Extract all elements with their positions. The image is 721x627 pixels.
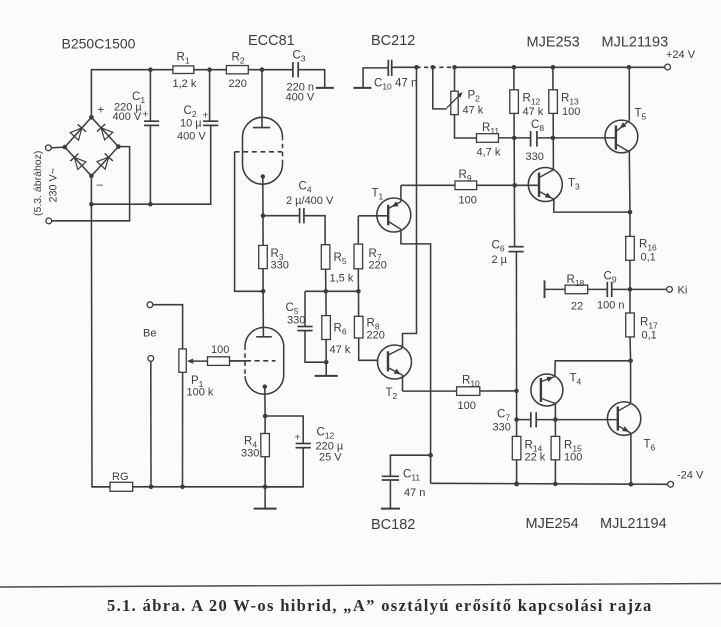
svg-text:400 V: 400 V [286, 92, 315, 104]
svg-text:47 n: 47 n [404, 487, 425, 499]
svg-text:47 k: 47 k [330, 344, 351, 356]
svg-text:4,7 k: 4,7 k [477, 147, 501, 159]
svg-text:22: 22 [571, 301, 583, 313]
svg-text:Be: Be [143, 328, 156, 340]
svg-text:0,1: 0,1 [641, 252, 656, 264]
svg-text:RG: RG [112, 471, 129, 483]
svg-text:MJL21194: MJL21194 [600, 516, 667, 532]
svg-text:(5.3. ábrához): (5.3. ábrához) [32, 151, 44, 216]
svg-text:MJL21193: MJL21193 [602, 35, 669, 51]
svg-text:MJE254: MJE254 [526, 516, 579, 532]
svg-text:ECC81: ECC81 [248, 33, 295, 49]
svg-text:MJE253: MJE253 [527, 35, 580, 51]
svg-text:100 k: 100 k [187, 387, 214, 399]
svg-text:100: 100 [211, 344, 229, 356]
svg-text:+24 V: +24 V [666, 49, 696, 61]
svg-text:330: 330 [287, 315, 305, 327]
svg-text:400 V: 400 V [113, 111, 142, 123]
svg-text:100: 100 [459, 195, 477, 207]
svg-text:1,2 k: 1,2 k [173, 78, 197, 90]
svg-text:330: 330 [241, 448, 259, 460]
svg-text:22 k: 22 k [525, 452, 546, 464]
svg-text:10 µ: 10 µ [180, 118, 202, 130]
svg-text:+: + [98, 105, 105, 117]
svg-text:330: 330 [271, 260, 289, 272]
svg-text:25 V: 25 V [319, 452, 342, 464]
svg-text:100 n: 100 n [597, 300, 625, 312]
svg-text:2 µ: 2 µ [492, 254, 508, 266]
svg-text:B250C1500: B250C1500 [62, 36, 136, 52]
svg-text:BC212: BC212 [371, 33, 415, 49]
svg-text:230 V~: 230 V~ [48, 168, 60, 203]
svg-text:330: 330 [526, 151, 544, 163]
svg-text:100: 100 [564, 452, 582, 464]
svg-text:47 k: 47 k [463, 105, 484, 117]
svg-text:2 µ/400 V: 2 µ/400 V [286, 195, 334, 207]
svg-text:Ki: Ki [678, 285, 688, 297]
svg-text:220: 220 [367, 330, 385, 342]
svg-text:330: 330 [493, 422, 511, 434]
svg-text:220: 220 [369, 260, 387, 272]
svg-text:–: – [97, 179, 104, 191]
svg-text:C10 47 n: C10 47 n [374, 78, 417, 92]
svg-text:0,1: 0,1 [642, 330, 657, 342]
svg-text:+: + [295, 432, 301, 444]
svg-text:100: 100 [458, 400, 476, 412]
svg-text:100: 100 [562, 106, 580, 118]
svg-text:BC182: BC182 [371, 517, 415, 533]
svg-text:220: 220 [229, 78, 247, 90]
svg-text:47 k: 47 k [523, 106, 544, 118]
svg-text:-24 V: -24 V [677, 470, 704, 482]
svg-text:+: + [143, 109, 149, 121]
svg-text:1,5 k: 1,5 k [330, 273, 354, 285]
svg-text:5.1. ábra. A 20 W-os hibrid, „: 5.1. ábra. A 20 W-os hibrid, „A” osztály… [107, 596, 653, 615]
svg-text:400 V: 400 V [177, 131, 206, 143]
svg-text:+: + [203, 110, 209, 122]
